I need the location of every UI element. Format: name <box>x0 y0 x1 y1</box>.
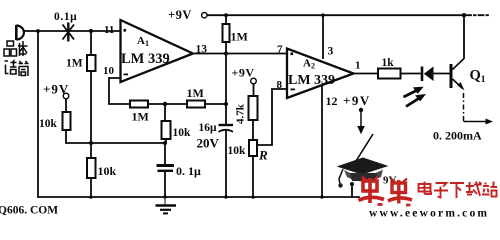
svg-text:12: 12 <box>326 94 338 108</box>
svg-text:LM 339: LM 339 <box>288 73 335 88</box>
svg-text:LM 339: LM 339 <box>121 51 170 67</box>
wire: 1M R2 top lead <box>90 31 92 55</box>
svg-text:11: 11 <box>104 24 114 36</box>
svg-text:8: 8 <box>277 79 283 91</box>
svg-text:7: 7 <box>277 44 283 56</box>
photodiode D1 <box>422 67 434 82</box>
svg-text:+9V: +9V <box>343 93 371 108</box>
wire: 0.1u C2 top lead <box>164 143 166 165</box>
svg-text:10k: 10k <box>228 145 247 157</box>
svg-text:1M: 1M <box>187 86 204 100</box>
resistor R4 10k (lower left, to bus) <box>87 158 96 178</box>
terminal: +9V top circle <box>202 13 207 18</box>
wire: ground bus <box>38 196 359 198</box>
microphone B (crystal mic) <box>16 25 24 40</box>
wire: Q1 collector to top rail <box>463 15 465 58</box>
下 <box>450 183 464 198</box>
wire: emitter dash-dot down and meter arrow <box>464 93 488 122</box>
wire: feedback row between 1M R5 and 1M R6 <box>148 103 187 105</box>
wire: 10k R4 bottom lead to bus <box>90 178 92 197</box>
capacitor C3 16u 20V electrolytic <box>219 125 234 132</box>
terminal: +9V left circle <box>63 93 69 99</box>
photodiode light arrows <box>404 88 423 106</box>
resistor R6 1M (feedback row right) <box>187 101 205 108</box>
resistor R3 10k (from +9V left) <box>63 112 71 130</box>
wire: 10k R7 top lead <box>164 104 166 121</box>
watermark: red text 电子下载站 <box>419 182 498 199</box>
wire: top rail dash-dot stub right of Q1 collector <box>466 14 488 16</box>
wire: feedback row from 1M R6 to mid column <box>205 103 226 105</box>
transistor Q1 <box>451 59 464 89</box>
wire: A1 output to A2 pin 7 <box>193 53 287 55</box>
watermark: red bug glyph 1 <box>359 177 385 205</box>
svg-text:0. 1μ: 0. 1μ <box>176 164 201 178</box>
wire: A2 pin 8 wire <box>257 89 287 145</box>
wire: photodiode D1 to Q1 base <box>434 73 450 75</box>
wire: 1M R2 bottom lead down to bias node <box>90 71 92 158</box>
wire: A2 pin 3 to +9V rail <box>322 15 324 58</box>
子 <box>434 183 448 198</box>
svg-text:4.7k: 4.7k <box>235 103 247 124</box>
svg-text:+9V: +9V <box>43 82 69 97</box>
svg-text:A1: A1 <box>137 35 149 48</box>
op-amp U1A LM339 A1 <box>121 20 194 82</box>
capacitor C1 0.1u (X style symbol) <box>63 23 75 42</box>
wire: 4.7k R9 to 10k R10 <box>252 120 254 140</box>
电 <box>419 182 432 195</box>
wire: pin 10 feedback wire <box>109 78 130 104</box>
wire: +9V to 10k R3 lead <box>65 99 67 112</box>
wire: 16u C3 bottom lead to bus <box>225 132 227 198</box>
站 <box>482 182 497 197</box>
wire: A2 pin 12 to ground bus <box>321 86 323 198</box>
resistor R7 10k (hanging from feedback row) <box>162 121 171 139</box>
wire: 0.1u C2 bottom lead to bus <box>164 172 166 197</box>
terminal: +9V mid circle <box>251 78 257 84</box>
wire: +9V top rail <box>208 14 465 16</box>
svg-text:1M: 1M <box>66 58 83 70</box>
wire: mid column from top rail through 1M R8 to 16u C3 <box>225 15 227 125</box>
svg-text:1M: 1M <box>132 110 149 124</box>
resistor R9 4.7k <box>249 96 258 120</box>
wire: 1k R11 to photodiode D1 <box>401 73 423 75</box>
svg-text:0. 200mA: 0. 200mA <box>433 129 482 143</box>
watermark: red bug glyph 2 <box>388 179 412 206</box>
svg-text:3: 3 <box>328 46 334 58</box>
resistor R8 1M (vertical from top rail) <box>223 24 230 42</box>
svg-text:1k: 1k <box>382 57 395 69</box>
op-amp U1B LM339 A2 <box>287 49 354 99</box>
resistor R2 1M (vertical, under input wire) <box>87 55 96 71</box>
wire: +9V mid to 4.7k R9 <box>253 84 255 96</box>
svg-text:16μ: 16μ <box>199 122 218 134</box>
svg-text:20V: 20V <box>197 136 220 151</box>
ground symbol <box>156 197 177 213</box>
Q1 emitter arrowhead <box>458 82 465 91</box>
wire: mic to pin 11 (top-left input wire) <box>24 30 121 32</box>
A1 - input mark <box>124 74 129 76</box>
svg-text:Q1: Q1 <box>470 68 486 86</box>
载 <box>466 182 482 197</box>
A2 + input mark <box>291 53 294 56</box>
svg-text:www.eeworm.com: www.eeworm.com <box>369 208 489 219</box>
wire: 10k R7 bottom lead <box>165 139 167 143</box>
svg-text:0.1μ: 0.1μ <box>54 11 77 23</box>
svg-text:13: 13 <box>196 44 208 56</box>
svg-text:10k: 10k <box>98 164 117 178</box>
watermark: graduation cap logo <box>337 158 389 188</box>
svg-text:+9V: +9V <box>168 8 192 22</box>
resistor R11 1k <box>378 69 401 79</box>
resistor R10 10k R <box>249 140 257 156</box>
node: crystal mic Chinese label 晶体 <box>4 41 28 56</box>
meter arrowhead <box>486 119 494 125</box>
svg-text:Q606. COM: Q606. COM <box>0 205 58 217</box>
svg-text:+9V: +9V <box>232 66 255 80</box>
svg-text:R: R <box>258 148 268 163</box>
svg-text:1M: 1M <box>231 30 248 44</box>
capacitor C2 0.1u (bottom, plates) <box>157 166 175 171</box>
svg-text:1: 1 <box>355 60 361 72</box>
A2 - input mark <box>291 89 296 91</box>
wire: A2 output to 1k R11 <box>354 73 379 75</box>
A1 + input mark <box>124 29 127 32</box>
wire: 10k R10 bottom lead to bus <box>252 156 254 197</box>
wire: switch S1 lower stub to bus <box>351 184 353 197</box>
resistor R5 1M (feedback row left) <box>130 101 148 108</box>
svg-text:10k: 10k <box>39 118 58 130</box>
node: crystal mic Chinese label 话筒 <box>5 60 29 76</box>
wire: 10k R3 bottom lead and bias-node horizontal <box>66 130 165 143</box>
switch S1 (pushbutton to +9V) <box>350 108 373 186</box>
wire: left vertical rail <box>37 31 39 197</box>
svg-text:10k: 10k <box>173 127 192 139</box>
svg-text:10: 10 <box>103 65 115 77</box>
